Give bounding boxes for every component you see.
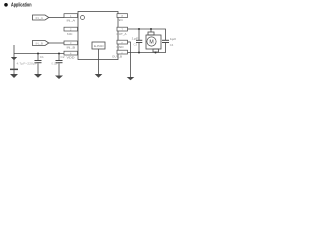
svg-text:VDD: VDD bbox=[67, 55, 76, 59]
svg-text:E-PAD: E-PAD bbox=[94, 44, 104, 48]
svg-text:M: M bbox=[149, 39, 153, 45]
svg-text:OUT_A: OUT_A bbox=[117, 32, 127, 36]
svg-text:1μF: 1μF bbox=[132, 37, 140, 41]
svg-text:4.7μF~220μF: 4.7μF~220μF bbox=[17, 62, 38, 66]
svg-text:Application: Application bbox=[11, 3, 32, 9]
svg-text:C1: C1 bbox=[40, 55, 45, 59]
svg-text:OUT_B: OUT_B bbox=[112, 55, 122, 59]
svg-text:IN_A: IN_A bbox=[36, 16, 44, 20]
svg-text:IN_A: IN_A bbox=[67, 19, 76, 23]
svg-text:IN_B: IN_B bbox=[67, 45, 76, 49]
svg-text:IN_B: IN_B bbox=[36, 41, 44, 45]
svg-text:GND: GND bbox=[117, 45, 125, 49]
svg-text:1μF: 1μF bbox=[170, 37, 176, 41]
svg-text:0.1μF: 0.1μF bbox=[52, 61, 59, 65]
svg-text:C2: C2 bbox=[61, 55, 66, 59]
